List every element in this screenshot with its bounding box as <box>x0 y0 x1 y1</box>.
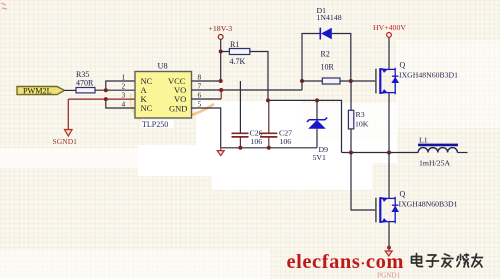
power HV+400V <box>373 23 406 37</box>
transistor Q1 IXGH48N60B3D1 <box>376 61 458 95</box>
wire R35 to U8 pin2 <box>95 89 135 91</box>
svg-text:5V1: 5V1 <box>313 153 327 162</box>
junction dot <box>266 98 270 102</box>
wire pin6 stub <box>192 98 222 100</box>
svg-text:7: 7 <box>198 82 202 91</box>
svg-text:5: 5 <box>198 100 202 109</box>
capacitor C26 <box>232 81 263 148</box>
ground power symbol <box>217 148 224 156</box>
svg-text:R2: R2 <box>321 50 330 59</box>
svg-text:+18V-3: +18V-3 <box>209 24 233 33</box>
junction dot <box>219 79 223 83</box>
svg-text:elecfans·com: elecfans·com <box>287 251 405 273</box>
wire Q2 emitter down <box>388 222 390 248</box>
transistor Q2 IXGH48N60B3D1 <box>376 190 458 224</box>
junction dot <box>219 88 223 92</box>
wire HV to Q1 collector <box>388 37 390 69</box>
U8 pin numbers <box>122 73 202 109</box>
svg-text:6: 6 <box>198 91 202 100</box>
svg-text:10K: 10K <box>355 119 369 128</box>
svg-text:4: 4 <box>122 100 126 109</box>
junction dot <box>315 98 319 102</box>
resistor R1 <box>221 40 250 66</box>
wire pin7 VO <box>192 89 303 91</box>
svg-text:IXGH48N60B3D1: IXGH48N60B3D1 <box>399 200 458 209</box>
wire 18V rail <box>220 39 222 81</box>
wire ground bar <box>221 147 317 149</box>
junction dot <box>219 50 223 54</box>
svg-text:1mH/25A: 1mH/25A <box>419 158 451 167</box>
junction dot <box>267 146 271 150</box>
svg-text:2: 2 <box>122 82 126 91</box>
op-amp U8 TLP250 body <box>135 62 192 118</box>
wire after L1 <box>457 152 467 154</box>
ground SGND1 <box>53 130 78 147</box>
junction dot <box>387 246 391 250</box>
svg-text:GND: GND <box>169 103 187 113</box>
junction dot <box>387 151 391 155</box>
svg-text:470R: 470R <box>76 78 94 87</box>
junction dot <box>238 146 242 150</box>
junction dot <box>349 151 353 155</box>
watermark chinese 电子发烧友 <box>412 254 483 268</box>
junction dot <box>104 88 108 92</box>
svg-text:IXGH48N60B3D1: IXGH48N60B3D1 <box>399 71 458 80</box>
svg-text:HV+400V: HV+400V <box>373 23 406 32</box>
white patches (jpeg washout) <box>196 101 302 148</box>
junction dot <box>300 79 304 83</box>
wire pin6-pin7 tie <box>220 90 222 99</box>
corner artifact <box>1 3 7 9</box>
svg-text:Q: Q <box>400 190 406 199</box>
wire port to R35 <box>65 89 77 91</box>
zener diode D9 <box>307 100 328 161</box>
svg-text:R3: R3 <box>356 110 365 119</box>
resistor R2 <box>302 50 340 84</box>
wire Q2 gate riser <box>351 153 376 211</box>
capacitor C27 <box>260 100 292 147</box>
svg-text:PWM2L: PWM2L <box>23 86 52 95</box>
svg-text:10R: 10R <box>321 63 335 72</box>
resistor R35 <box>76 70 95 93</box>
wire pin3 (SGND net) <box>68 98 135 100</box>
svg-text:1N4148: 1N4148 <box>317 13 342 22</box>
svg-text:8: 8 <box>198 73 202 82</box>
svg-text:106: 106 <box>251 137 263 146</box>
ground PGND <box>377 248 401 279</box>
inductor L1 <box>418 136 458 168</box>
diode D1 1N4148 <box>302 6 351 81</box>
junction dot <box>104 97 108 101</box>
svg-text:1: 1 <box>122 73 126 82</box>
power +18V-3 <box>209 24 233 39</box>
svg-text:L1: L1 <box>419 136 428 145</box>
svg-text:TLP250: TLP250 <box>142 120 168 129</box>
U8 pin names <box>141 76 188 113</box>
wire to ground <box>67 99 69 129</box>
port PWM2L <box>17 86 65 95</box>
wire pin1 tie <box>106 81 135 90</box>
node line emitter reference <box>268 100 342 152</box>
wire Q1 emitter down <box>388 93 390 153</box>
resistor R3 <box>348 81 368 153</box>
svg-text:4.7K: 4.7K <box>230 57 246 66</box>
wire R1 right down <box>250 52 268 101</box>
U8 value label TLP250 <box>141 120 174 129</box>
svg-text:R1: R1 <box>230 40 239 49</box>
wire pin7 riser <box>301 81 303 90</box>
wire pin5 GND down <box>192 108 221 148</box>
wire emitter line <box>342 152 419 154</box>
junction dot <box>349 79 353 83</box>
orange watermark ghost arc <box>140 96 214 117</box>
wire pin4 tie <box>106 99 135 108</box>
svg-text:Q: Q <box>400 61 406 70</box>
wire pin8 VCC <box>192 80 221 82</box>
svg-text:NC: NC <box>141 103 153 113</box>
watermark elecfans.com <box>287 251 405 273</box>
wire Q1-Q2 link <box>388 153 390 199</box>
svg-text:U8: U8 <box>158 62 168 71</box>
wire gate line <box>340 80 376 82</box>
svg-text:3: 3 <box>122 91 126 100</box>
svg-text:106: 106 <box>280 137 292 146</box>
svg-text:SGND1: SGND1 <box>53 137 78 146</box>
